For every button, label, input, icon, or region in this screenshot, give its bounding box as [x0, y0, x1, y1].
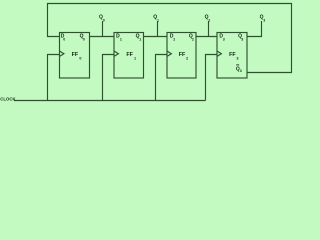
- svg-text:3: 3: [263, 19, 265, 23]
- svg-text:0: 0: [83, 37, 85, 41]
- svg-text:3: 3: [236, 56, 238, 60]
- svg-text:2: 2: [192, 37, 194, 41]
- svg-text:3: 3: [240, 69, 242, 73]
- svg-text:2: 2: [173, 37, 175, 41]
- svg-text:0: 0: [63, 37, 65, 41]
- svg-text:FF: FF: [179, 52, 186, 58]
- svg-text:1: 1: [134, 56, 136, 60]
- svg-text:2: 2: [186, 56, 188, 60]
- svg-text:FF: FF: [126, 52, 133, 58]
- svg-text:FF: FF: [72, 52, 79, 58]
- svg-text:1: 1: [157, 19, 159, 23]
- svg-text:1: 1: [120, 37, 122, 41]
- svg-text:3: 3: [223, 37, 225, 41]
- svg-text:FF: FF: [229, 52, 236, 58]
- svg-text:0: 0: [103, 19, 105, 23]
- svg-text:0: 0: [79, 56, 81, 60]
- svg-text:CLOCK: CLOCK: [0, 96, 16, 101]
- svg-text:2: 2: [208, 19, 210, 23]
- svg-text:1: 1: [139, 37, 141, 41]
- svg-text:3: 3: [241, 37, 243, 41]
